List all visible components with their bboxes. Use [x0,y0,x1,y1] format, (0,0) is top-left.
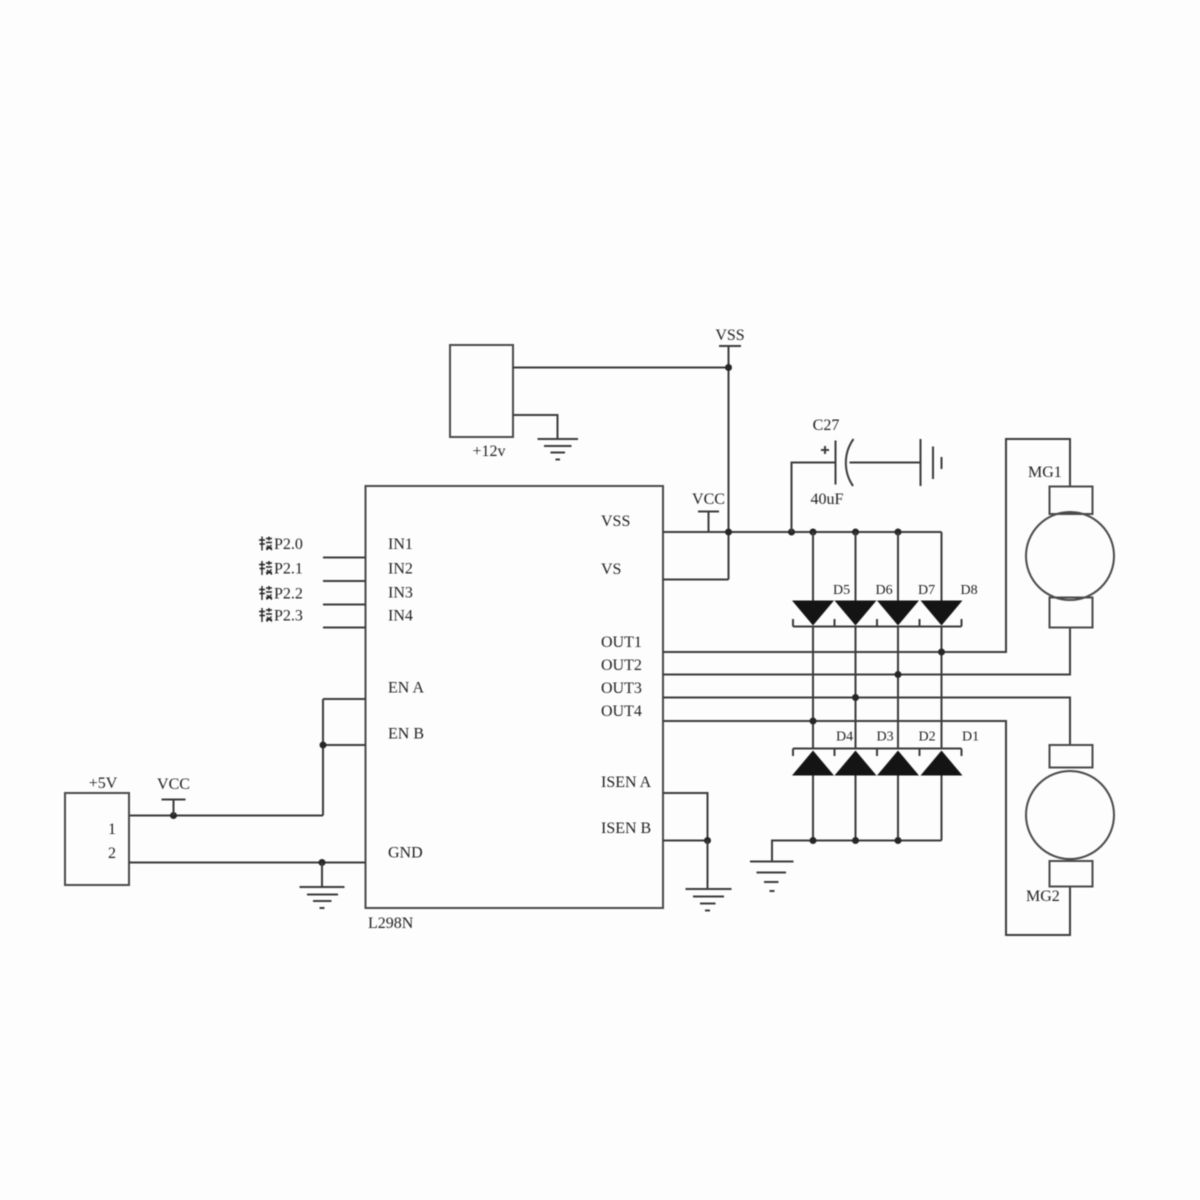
wire ISEN A net [663,793,708,841]
wire IN1 stub [323,557,366,559]
ground under GND wire [300,863,345,909]
junction VSS rail x bus [725,529,732,536]
svg-text:+5V: +5V [89,775,118,792]
svg-text:OUT1: OUT1 [601,634,642,651]
MG1 top brush [1050,487,1093,515]
wire EN B stub [323,744,366,746]
power symbol VCC (at VSS pin) [692,491,725,532]
wire ISEN to ground [707,841,709,889]
node VSS label [715,327,744,346]
cathode bar lower diodes [793,749,962,757]
ground under +12v [538,439,579,460]
wire upper diode column 3 [897,532,899,601]
capacitor C27 [792,417,921,532]
svg-text:D1: D1 [962,730,979,745]
junction OUT3/col2 [852,694,859,701]
junction GND wire [319,859,326,866]
cathode bar upper diodes [793,619,962,627]
svg-text:VCC: VCC [692,491,725,508]
svg-text:L298N: L298N [368,915,414,932]
diode D8 [921,601,963,626]
diode D7 [877,601,919,626]
wire upper diode column 2 [855,532,857,601]
wire mid column 1 [812,627,814,749]
connector +5V box [65,775,129,885]
svg-text:D7: D7 [918,583,935,598]
svg-text:ISEN B: ISEN B [601,820,651,837]
wire +5V pin2 to GND pin [129,862,366,864]
wire IN3 stub [323,604,366,606]
diode D3 [835,751,877,776]
svg-text:1: 1 [108,821,116,838]
motor MG2 [1026,745,1114,905]
junction VSS/+12v [725,364,732,371]
wire upper diode column 1 [812,532,814,601]
wire OUT4 net [663,721,1070,935]
wire mid column 3 [897,627,899,749]
MG2 bottom brush [1050,861,1093,887]
C27 plus mark [821,446,829,454]
svg-text:D6: D6 [876,583,893,598]
wire OUT3 net [663,698,1070,746]
svg-text:VCC: VCC [157,776,190,793]
svg-text:IN2: IN2 [388,561,413,578]
svg-text:D3: D3 [877,730,894,745]
net label 接P2.3 [259,608,303,625]
MG1 bottom brush [1050,598,1093,628]
diode D1 [921,751,963,776]
wire lower column 3 [897,776,899,841]
wire OUT2 net [663,628,1070,675]
junction col D5 [810,529,817,536]
svg-text:VSS: VSS [715,327,744,344]
wire ISEN B net [663,840,708,842]
wire VSS pin bus [663,531,942,533]
net label 接P2.0 [259,536,303,553]
svg-text:40uF: 40uF [811,491,844,508]
junction col D7 [895,529,902,536]
power symbol VCC (+5V side) [157,776,190,816]
motor MG1 [1026,464,1114,628]
svg-text:VSS: VSS [601,513,630,530]
wire OUT1 net [663,439,1070,652]
svg-text:P2.2: P2.2 [274,586,303,603]
wire IN4 stub [323,627,366,629]
junction OUT1/col4 [938,649,945,656]
power source +12v box [450,345,513,460]
MG2 rotor circle [1026,771,1114,859]
junction bus/col2 [852,837,859,844]
MG2 top brush [1050,745,1093,768]
junction OUT2/col3 [895,671,902,678]
svg-text:D4: D4 [836,730,853,745]
net label 接P2.2 [259,586,303,603]
junction VCC stem [170,812,177,819]
svg-text:IN3: IN3 [388,585,413,602]
svg-text:P2.1: P2.1 [274,561,303,578]
svg-text:EN B: EN B [388,726,424,743]
wire C27 right lead [850,462,921,464]
svg-text:GND: GND [388,845,423,862]
svg-text:C27: C27 [813,417,840,434]
svg-text:VS: VS [601,561,621,578]
svg-text:OUT4: OUT4 [601,703,642,720]
wire VS pin [663,579,729,581]
wire mid column 4 [941,627,943,749]
junction C27 drop [788,529,795,536]
svg-text:OUT2: OUT2 [601,657,642,674]
junction bus/col1 [810,837,817,844]
junction col D6 [852,529,859,536]
wire EN A to EN B vertical [322,699,324,816]
diode D5 [792,601,834,626]
svg-text:D5: D5 [833,583,850,598]
wire lower column 1 [812,776,814,841]
svg-text:EN A: EN A [388,680,424,697]
svg-text:2: 2 [108,845,116,862]
svg-text:P2.3: P2.3 [274,608,303,625]
svg-text:+12v: +12v [472,443,505,460]
op IC U1 L298N body [366,486,664,908]
junction EN B [320,742,327,749]
wire IN2 stub [323,580,366,582]
junction ISEN [704,837,711,844]
wire VSS vertical rail [728,346,730,580]
wire lower column 4 [941,776,943,841]
net label 接P2.1 [259,561,303,578]
ground under ISEN [686,889,732,911]
wire EN A stub [323,698,366,700]
svg-text:MG2: MG2 [1026,888,1060,905]
wire lower column 2 [855,776,857,841]
svg-text:ISEN A: ISEN A [601,774,652,791]
ground under diode bus [750,862,794,892]
diode D4 [792,751,834,776]
svg-text:IN1: IN1 [388,536,413,553]
ground right of C27 (rotated earth) [921,439,942,486]
svg-text:IN4: IN4 [388,608,413,625]
wire C27 left lead [792,463,836,533]
wire lower diode bus [772,841,942,862]
svg-text:D8: D8 [961,583,978,598]
diode D6 [835,601,877,626]
svg-text:D2: D2 [919,730,936,745]
C27 right plate (curved) [846,439,854,486]
wire +12v ground pin [513,415,558,439]
svg-text:OUT3: OUT3 [601,680,642,697]
wire +12v output to VSS node [513,367,729,369]
wire enable net to +5V pin1 [129,815,323,817]
junction OUT4/col1 [810,718,817,725]
wire upper diode column 4 [941,532,943,601]
C27 left plate [835,441,837,485]
diode D2 [877,751,919,776]
svg-text:P2.0: P2.0 [274,536,303,553]
wire mid column 2 [855,627,857,749]
svg-text:MG1: MG1 [1028,464,1062,481]
junction bus/col3 [895,837,902,844]
MG1 rotor circle [1026,512,1114,600]
